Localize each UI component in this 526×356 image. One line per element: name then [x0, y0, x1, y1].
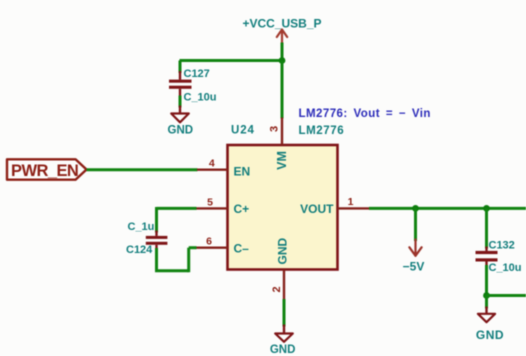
svg-text:PWR_EN: PWR_EN: [11, 162, 78, 180]
svg-text:1: 1: [348, 196, 354, 208]
junction at VCC node: [279, 57, 286, 64]
svg-text:C124: C124: [126, 244, 153, 256]
svg-text:LM2776: LM2776: [299, 125, 345, 137]
pin 6 C-: [196, 236, 249, 256]
svg-text:VOUT: VOUT: [300, 202, 334, 216]
ground below C132: [478, 307, 495, 323]
svg-text:3: 3: [269, 126, 281, 132]
wire to -5V arrow: [414, 208, 417, 241]
svg-text:C_1u: C_1u: [128, 221, 155, 233]
wire C+ to C124: [157, 207, 197, 233]
svg-text:−5V: −5V: [403, 260, 425, 274]
wire junction down to pin 3: [281, 61, 284, 119]
svg-text:C127: C127: [184, 68, 210, 80]
svg-text:C132: C132: [489, 239, 515, 251]
svg-text:VM: VM: [275, 151, 289, 170]
wire VOUT output: [369, 207, 526, 210]
svg-text:GND: GND: [276, 238, 290, 265]
capacitor C132: [476, 247, 498, 267]
wire horizontal to C127: [180, 59, 283, 62]
wire to C132: [485, 208, 488, 248]
wire right from junction: [487, 294, 526, 297]
global label PWR_EN: [7, 159, 87, 180]
wire pin 2 to ground: [283, 299, 286, 327]
svg-text:GND: GND: [168, 125, 194, 137]
wire C124 to C- (step): [155, 248, 197, 273]
wire junction to ground: [485, 296, 488, 309]
pin 5 C+: [196, 197, 249, 217]
wire down to C127: [179, 61, 182, 74]
wire PWR_EN to EN pin: [87, 168, 198, 171]
ground below U24: [275, 325, 293, 342]
junction below C132: [483, 292, 490, 299]
capacitor C124: [146, 231, 168, 251]
capacitor C127: [169, 71, 192, 97]
svg-text:GND: GND: [476, 328, 504, 342]
svg-text:U24: U24: [231, 125, 255, 137]
svg-text:6: 6: [206, 236, 212, 248]
svg-text:4: 4: [209, 158, 215, 170]
svg-text:GND: GND: [270, 344, 296, 356]
ground below C127: [171, 106, 189, 123]
svg-text:C_10u: C_10u: [489, 262, 522, 274]
svg-text:EN: EN: [234, 164, 251, 178]
svg-text:2: 2: [271, 286, 283, 292]
IC U24 LM2776 body: [228, 145, 338, 270]
svg-text:C+: C+: [234, 202, 250, 216]
junction at C132 node: [483, 205, 490, 212]
pin 3 VM: [269, 118, 290, 170]
svg-text:+VCC_USB_P: +VCC_USB_P: [242, 17, 321, 31]
power symbol +VCC_USB_P: [242, 17, 321, 44]
svg-text:C_10u: C_10u: [184, 92, 217, 104]
svg-text:LM2776: Vout = − Vin: LM2776: Vout = − Vin: [299, 108, 431, 120]
svg-text:5: 5: [207, 197, 213, 209]
power symbol -5V: [403, 240, 425, 274]
svg-text:C–: C–: [234, 242, 250, 256]
wire from +VCC_USB_P to junction: [281, 43, 284, 61]
pin 4 EN: [197, 158, 250, 179]
pin 1 VOUT: [300, 196, 369, 216]
junction at -5V node: [412, 205, 419, 212]
wire C132 to junction: [485, 265, 488, 296]
pin 2 GND: [271, 238, 290, 301]
wire C127 to ground: [179, 96, 182, 108]
